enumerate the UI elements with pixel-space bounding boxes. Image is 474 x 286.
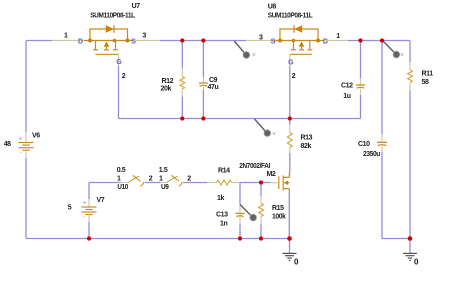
svg-text:1n: 1n: [220, 220, 227, 227]
svg-text:V: V: [253, 52, 256, 57]
probe P1: [234, 41, 249, 58]
battery V7: [82, 183, 97, 239]
wire left vertical V6 top lead: [25, 41, 27, 143]
svg-text:5: 5: [68, 205, 72, 212]
bulk arrow U8: [299, 41, 305, 47]
bulk arrow U7: [104, 41, 110, 47]
svg-text:SUM110P08-11L: SUM110P08-11L: [90, 13, 136, 20]
junction R12 bottom on gate rail: [180, 116, 184, 120]
capacitor C9: [199, 41, 208, 119]
battery V6: [19, 143, 34, 151]
svg-text:2N7002/FAI: 2N7002/FAI: [239, 163, 270, 170]
svg-text:G: G: [288, 59, 294, 66]
transistor U8 pmos symbol: [274, 25, 324, 54]
ground right: [403, 239, 417, 261]
M2 source wire to rail: [288, 192, 290, 239]
resistor R13: [287, 119, 292, 178]
transistor U7 pmos symbol: [84, 25, 134, 54]
svg-text:R12: R12: [162, 78, 174, 85]
probe P2: [255, 119, 271, 136]
wire V6 bottom lead: [25, 150, 27, 238]
switch U10: [89, 175, 161, 186]
svg-text:1u: 1u: [343, 93, 350, 100]
svg-text:58: 58: [422, 79, 429, 86]
svg-text:+: +: [19, 136, 22, 142]
svg-text:R15: R15: [272, 205, 284, 212]
svg-text:1: 1: [117, 176, 121, 183]
svg-text:R13: R13: [301, 135, 313, 142]
svg-text:2: 2: [122, 73, 126, 80]
svg-text:V7: V7: [97, 197, 105, 204]
wire U7 source to U8 source net 3: [134, 40, 278, 42]
probe P4: [384, 42, 400, 58]
svg-text:R14: R14: [218, 167, 230, 174]
junction C9 bottom on gate rail: [201, 116, 205, 120]
svg-text:3: 3: [142, 33, 146, 40]
transistor M2 nmos: [279, 173, 290, 192]
svg-text:C9: C9: [209, 77, 218, 84]
wire gate rail: [119, 118, 361, 120]
svg-text:48: 48: [4, 141, 11, 148]
svg-text:D: D: [323, 38, 328, 45]
svg-text:R11: R11: [422, 71, 434, 78]
svg-text:S: S: [271, 38, 276, 45]
pin dots U8: [278, 39, 282, 43]
resistor R15: [259, 183, 264, 239]
svg-text:D: D: [78, 38, 83, 45]
svg-text:1: 1: [336, 33, 340, 40]
svg-text:+: +: [83, 201, 86, 207]
junction C13 bottom on ground rail: [238, 236, 242, 240]
junction C10 and R11 at right ground: [408, 236, 413, 241]
resistor R12: [180, 41, 185, 119]
wire top-left from corner to U7 drain: [26, 40, 84, 42]
svg-text:20k: 20k: [161, 86, 172, 93]
U8 gate lead: [289, 54, 291, 118]
svg-text:3: 3: [259, 34, 263, 41]
svg-text:V: V: [273, 131, 276, 136]
svg-text:C10: C10: [358, 141, 370, 148]
svg-text:1.5: 1.5: [159, 167, 168, 174]
svg-text:1: 1: [64, 33, 68, 40]
svg-text:U9: U9: [161, 184, 169, 191]
svg-text:47u: 47u: [208, 84, 219, 91]
svg-text:2: 2: [149, 176, 153, 183]
svg-text:V: V: [401, 52, 404, 57]
junction R15 bottom on ground rail: [259, 236, 263, 240]
svg-text:82k: 82k: [301, 143, 312, 150]
M2 gate lead: [270, 182, 279, 184]
svg-text:M2: M2: [267, 171, 276, 178]
switch U9: [161, 175, 192, 186]
svg-text:1k: 1k: [217, 195, 224, 202]
svg-text:2350u: 2350u: [363, 151, 380, 158]
svg-text:SUM110P08-11L: SUM110P08-11L: [268, 13, 314, 20]
wire bottom rail: [26, 238, 290, 240]
junction M2 source at left ground: [287, 236, 292, 241]
junction V7 minus on ground rail: [87, 236, 91, 240]
capacitor C10: [377, 41, 410, 239]
body diode U8: [294, 25, 302, 33]
capacitor C12: [356, 41, 365, 119]
svg-text:2: 2: [187, 176, 191, 183]
svg-text:C13: C13: [216, 212, 228, 219]
svg-text:2: 2: [292, 73, 296, 80]
svg-text:100k: 100k: [272, 214, 286, 221]
svg-text:S: S: [131, 38, 136, 45]
resistor R14: [191, 180, 270, 185]
junction R15 top on M2 gate net: [259, 180, 263, 184]
ground left: [283, 239, 297, 261]
svg-text:U10: U10: [117, 184, 128, 191]
junction C10 top on U8 drain net: [380, 38, 384, 42]
body diode U7: [106, 25, 114, 33]
junction R13 top / U8 gate on gate rail: [288, 116, 292, 120]
svg-text:U8: U8: [268, 3, 277, 10]
wire U8 drain to right corner: [324, 40, 410, 42]
svg-text:1: 1: [159, 176, 163, 183]
pin dots U7: [88, 39, 92, 43]
svg-text:0.5: 0.5: [117, 167, 126, 174]
svg-text:U7: U7: [132, 3, 141, 10]
svg-text:-: -: [84, 214, 86, 220]
capacitor C13: [235, 183, 244, 239]
U7 gate lead: [118, 54, 120, 118]
svg-text:C12: C12: [341, 83, 353, 90]
svg-text:-: -: [20, 150, 22, 156]
junction C9 top on net 3: [201, 38, 205, 42]
junction R12 top on net 3: [180, 38, 184, 42]
probe P3: [240, 205, 257, 221]
junction C12 top on U8 drain net: [358, 38, 362, 42]
resistor R11: [408, 41, 413, 239]
svg-text:V6: V6: [32, 133, 40, 140]
svg-text:G: G: [116, 59, 122, 66]
